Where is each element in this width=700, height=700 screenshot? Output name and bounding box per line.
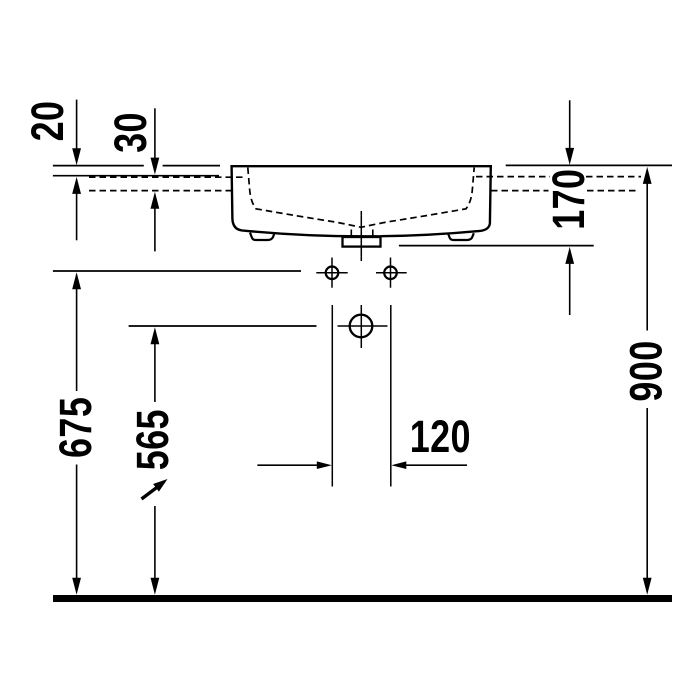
drain neck right line [372,230,374,237]
hidden edge dashed line D left [89,190,231,192]
svg-text:120: 120 [410,411,471,462]
hidden edge dashed line C left [89,176,247,178]
svg-text:565: 565 [127,409,178,470]
dimension 170: upper extension line with down arrow [565,100,574,165]
drain neck left line [350,230,352,237]
svg-text:170: 170 [543,169,594,230]
hidden edge dashed line C right (segment 1) [476,176,550,178]
dimension 120: left arrow pointing right [257,461,331,469]
dimension 900: upper arrow below wall line [643,167,652,331]
reference line for 565 (siphon height) [129,325,317,327]
left foot [250,233,274,240]
reference line for 170 (basin underside) [399,245,594,247]
basin inner bowl hidden outline (dashed) [248,168,474,228]
wall reference line A left (segment 1) [53,165,144,167]
hidden edge dashed line D right (segment 2) [587,190,637,192]
reference line for 675 (fixing hole height) [53,270,301,272]
left fixing hole [326,267,339,280]
centre line upper segment [360,211,362,261]
wall reference line A right [506,164,672,166]
dimension 20: upper extension line with down arrow [72,100,81,166]
dimension 170: lower arrow below reference line [565,247,574,315]
dimension 120: left extension line [331,305,333,487]
dimension 675: upper arrow below reference line [72,272,81,391]
dimension 565: upper arrow below reference line [151,327,160,402]
drain fitting rectangle [343,237,381,247]
hidden edge dashed line C right (segment 2) [586,176,641,178]
svg-text:20: 20 [22,101,73,142]
right fixing hole horizontal crosshair [376,272,407,274]
dimension 120: right extension line [390,305,392,487]
basin outline [232,166,491,236]
svg-text:30: 30 [105,112,156,153]
dimension 20: lower arrow [72,177,81,240]
reference line B left (rim minus 20) [53,175,219,177]
dimension 900: lower shaft with down arrow to floor [643,408,652,595]
left fixing hole vertical crosshair [331,258,333,288]
dimension 565: lower shaft with down arrow to floor [151,506,160,595]
right fixing hole [384,267,397,280]
left fixing hole horizontal crosshair [316,272,347,274]
dimension 675: lower shaft with down arrow to floor [72,465,81,595]
wall reference line A left (segment 2) [163,165,220,167]
dimension 30: upper extension line with down arrow [151,108,160,174]
svg-text:900: 900 [621,340,672,401]
svg-text:675: 675 [50,397,101,458]
hidden edge dashed line D right (segment 1) [491,190,549,192]
floor line [53,595,672,602]
dimension 120: right arrow pointing left [391,461,467,469]
centre line lower segment (big hole vertical crosshair) [360,305,362,348]
height adjustable arrow symbol [142,479,168,499]
dimension 30: lower arrow [151,192,160,252]
right foot [448,233,474,240]
siphon hole horizontal crosshair [338,325,388,327]
right fixing hole vertical crosshair [390,258,392,288]
siphon hole circle [350,315,373,338]
